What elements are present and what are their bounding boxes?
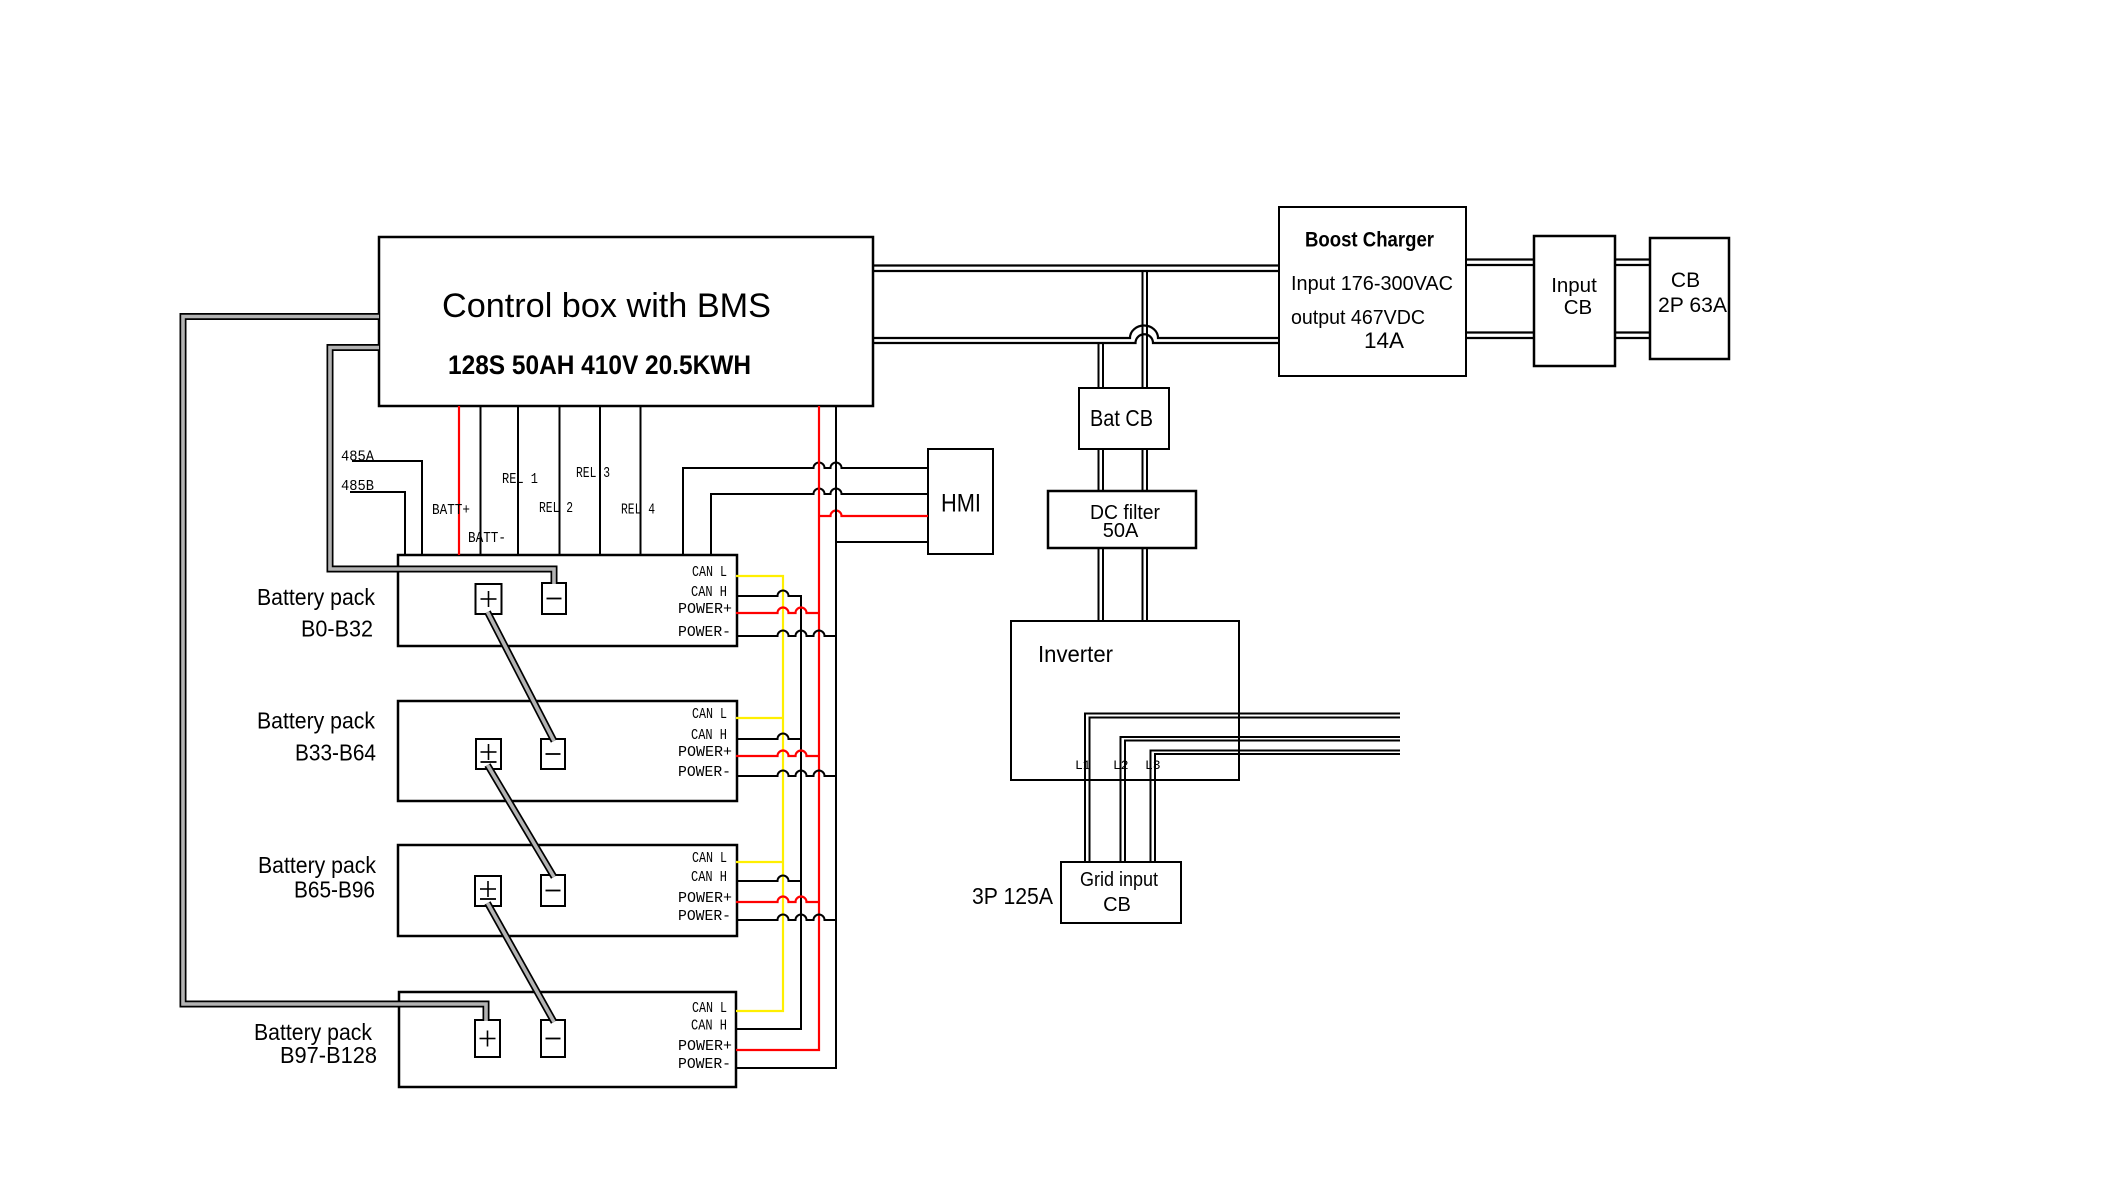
svg-text:POWER-: POWER- bbox=[678, 1056, 731, 1073]
svg-text:BATT+: BATT+ bbox=[432, 502, 470, 519]
svg-text:CAN L: CAN L bbox=[692, 564, 727, 581]
svg-text:2P 63A: 2P 63A bbox=[1658, 294, 1727, 317]
svg-text:L2: L2 bbox=[1113, 758, 1129, 773]
svg-text:CB: CB bbox=[1671, 269, 1700, 292]
svg-text:CAN L: CAN L bbox=[692, 706, 727, 723]
svg-text:CAN H: CAN H bbox=[691, 1018, 727, 1035]
svg-text:L1: L1 bbox=[1075, 758, 1091, 773]
svg-text:Battery pack: Battery pack bbox=[257, 708, 375, 734]
svg-text:POWER-: POWER- bbox=[678, 764, 731, 781]
svg-text:CB: CB bbox=[1103, 894, 1131, 916]
svg-text:CAN H: CAN H bbox=[691, 584, 727, 601]
svg-text:B97-B128: B97-B128 bbox=[280, 1042, 377, 1068]
svg-text:REL 3: REL 3 bbox=[576, 465, 610, 482]
svg-text:Control box with BMS: Control box with BMS bbox=[442, 287, 771, 325]
svg-text:3P 125A: 3P 125A bbox=[972, 883, 1054, 909]
svg-text:output 467VDC: output 467VDC bbox=[1291, 306, 1425, 329]
svg-text:50A: 50A bbox=[1103, 520, 1139, 542]
svg-text:B65-B96: B65-B96 bbox=[294, 877, 375, 903]
svg-text:485B: 485B bbox=[341, 478, 374, 495]
svg-text:Inverter: Inverter bbox=[1038, 641, 1113, 667]
svg-text:Grid input: Grid input bbox=[1080, 869, 1158, 891]
svg-text:CAN L: CAN L bbox=[692, 1000, 727, 1017]
svg-text:CB: CB bbox=[1564, 296, 1592, 319]
svg-text:Battery pack: Battery pack bbox=[258, 852, 376, 878]
svg-text:REL 2: REL 2 bbox=[539, 500, 573, 517]
svg-text:485A: 485A bbox=[341, 449, 374, 466]
svg-text:CAN H: CAN H bbox=[691, 727, 727, 744]
svg-text:Battery pack: Battery pack bbox=[257, 584, 375, 610]
svg-text:Input: Input bbox=[1551, 274, 1597, 297]
svg-text:B33-B64: B33-B64 bbox=[295, 740, 376, 766]
svg-text:Bat CB: Bat CB bbox=[1090, 405, 1153, 431]
svg-text:REL 1: REL 1 bbox=[502, 471, 538, 488]
svg-text:POWER+: POWER+ bbox=[678, 744, 732, 761]
svg-text:Boost Charger: Boost Charger bbox=[1305, 228, 1435, 252]
svg-text:POWER+: POWER+ bbox=[678, 601, 732, 618]
svg-text:B0-B32: B0-B32 bbox=[301, 616, 373, 642]
svg-text:128S 50AH 410V 20.5KWH: 128S 50AH 410V 20.5KWH bbox=[448, 350, 751, 380]
svg-text:CAN H: CAN H bbox=[691, 869, 727, 886]
svg-text:POWER+: POWER+ bbox=[678, 1038, 732, 1055]
svg-text:POWER+: POWER+ bbox=[678, 890, 732, 907]
svg-text:HMI: HMI bbox=[941, 490, 981, 518]
svg-text:BATT-: BATT- bbox=[468, 530, 506, 547]
svg-text:14A: 14A bbox=[1364, 328, 1404, 353]
svg-text:L3: L3 bbox=[1145, 758, 1161, 773]
svg-text:REL 4: REL 4 bbox=[621, 502, 655, 519]
svg-text:POWER-: POWER- bbox=[678, 908, 731, 925]
svg-text:CAN L: CAN L bbox=[692, 850, 727, 867]
svg-text:POWER-: POWER- bbox=[678, 624, 731, 641]
svg-text:Input 176-300VAC: Input 176-300VAC bbox=[1291, 272, 1453, 295]
